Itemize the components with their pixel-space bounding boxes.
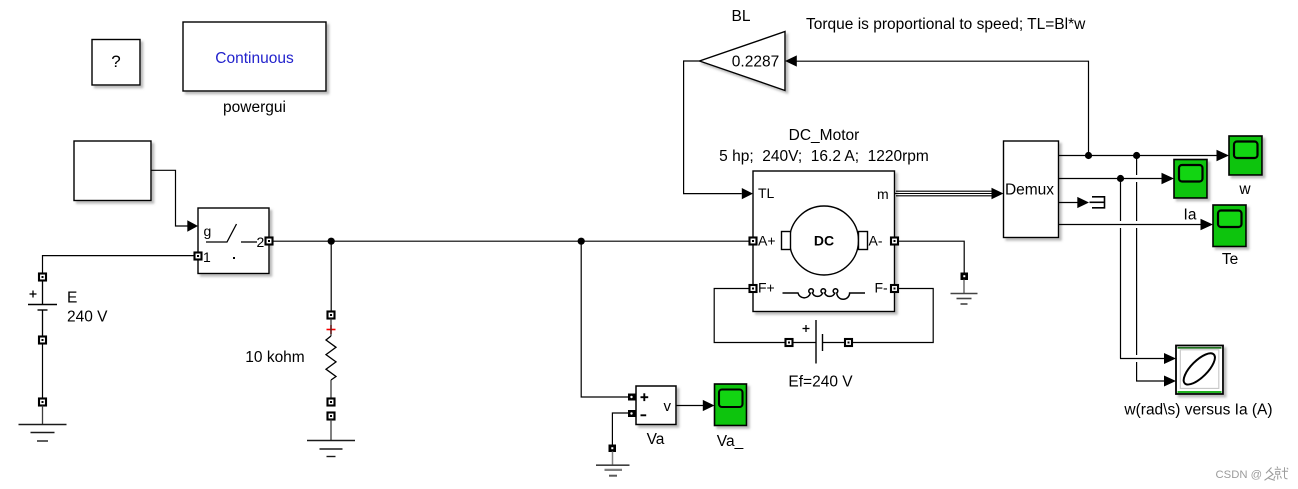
gain BL <box>700 32 786 91</box>
svg-text:TL: TL <box>758 185 775 201</box>
motor port A- <box>891 238 898 245</box>
wire gain output to TL <box>684 61 753 199</box>
svg-text:F-: F- <box>875 280 889 296</box>
svg-text:CSDN @: CSDN @ <box>1216 469 1263 481</box>
svg-text:powergui: powergui <box>223 99 286 116</box>
svg-text:Te: Te <box>1222 251 1238 268</box>
junction w to XY <box>1133 152 1140 159</box>
junction Ia to XY <box>1117 175 1124 182</box>
wire demux out3 to terminator <box>1059 197 1090 208</box>
wire E to breaker input 1 <box>43 256 195 274</box>
svg-text:?: ? <box>111 52 120 71</box>
svg-text:Ef=240 V: Ef=240 V <box>788 374 853 391</box>
battery Ef <box>786 320 853 364</box>
svg-text:A+: A+ <box>758 233 776 249</box>
wire junction to Va + input <box>581 241 632 397</box>
breaker output port <box>266 238 273 245</box>
motor port F+ <box>750 285 757 292</box>
voltage measurement Va <box>636 386 676 425</box>
resistor 10 kohm branch <box>326 312 336 406</box>
wire A- to ground <box>898 241 964 272</box>
Va - port <box>628 410 636 417</box>
scope Te <box>1213 205 1246 247</box>
wire to resistor <box>330 241 332 311</box>
svg-text:w(rad\s) versus Ia (A): w(rad\s) versus Ia (A) <box>1123 402 1272 419</box>
junction w feedback <box>1085 152 1092 159</box>
ground at A- <box>951 273 978 305</box>
svg-text:Va: Va <box>647 431 665 448</box>
svg-text:Torque is proportional to spee: Torque is proportional to speed; TL=Bl*w <box>806 16 1086 33</box>
junction at resistor branch <box>328 238 335 245</box>
motor port A+ <box>750 238 757 245</box>
svg-text:A-: A- <box>869 233 883 249</box>
step source block <box>74 141 151 201</box>
wire demux out2 to scope Ia <box>1059 173 1175 184</box>
wire feedback w to gain input <box>785 55 1089 155</box>
watermark CSDN <box>1216 467 1289 482</box>
svg-text:240 V: 240 V <box>67 309 108 326</box>
svg-text:1: 1 <box>203 249 211 265</box>
DC voltage source E <box>28 274 57 344</box>
ground below E <box>19 399 67 442</box>
wire demux out4 to scope Te <box>1059 219 1214 230</box>
svg-text:2: 2 <box>257 234 265 250</box>
demux block <box>1004 141 1059 238</box>
svg-text:10 kohm: 10 kohm <box>245 349 304 366</box>
svg-text:E: E <box>67 290 77 307</box>
svg-text:DC_Motor: DC_Motor <box>789 127 860 144</box>
svg-text:Va_: Va_ <box>717 433 744 450</box>
svg-text:BL: BL <box>732 8 751 25</box>
model info block ? <box>92 40 140 86</box>
ground below Va <box>596 445 630 476</box>
svg-text:Continuous: Continuous <box>215 50 294 67</box>
svg-text:0.2287: 0.2287 <box>732 54 779 71</box>
wire Ef to F- <box>852 289 933 343</box>
svg-text:5 hp; 240V; 16.2 A; 1220rpm: 5 hp; 240V; 16.2 A; 1220rpm <box>719 148 929 165</box>
svg-text:Ia: Ia <box>1184 207 1197 224</box>
breaker input port 1 <box>195 253 202 260</box>
wire Va to scope Va_ <box>676 400 715 411</box>
scope Ia <box>1174 160 1207 199</box>
wire w branch to XY input 2 <box>1137 156 1176 387</box>
ground below resistor <box>307 413 355 457</box>
svg-text:Demux: Demux <box>1005 182 1054 199</box>
powergui block <box>183 22 326 91</box>
svg-text:DC: DC <box>814 233 834 249</box>
wire step to breaker g <box>152 170 199 232</box>
scope w <box>1229 136 1262 175</box>
terminator <box>1090 197 1105 208</box>
wire ground to Va - input <box>612 413 632 445</box>
main bus wire breaker to motor A+ <box>273 240 750 242</box>
svg-text:v: v <box>664 398 672 415</box>
svg-text:m: m <box>877 186 889 202</box>
svg-text:g: g <box>204 223 212 239</box>
DC motor block <box>753 171 895 312</box>
bus m to Demux <box>895 188 1004 200</box>
wire E to ground <box>42 344 44 399</box>
breaker block <box>198 208 269 274</box>
label E 240 V <box>67 290 108 326</box>
scope Va_ <box>715 384 747 426</box>
wire Ia branch to XY input 1 <box>1120 179 1176 365</box>
svg-text:F+: F+ <box>758 280 775 296</box>
label DC_Motor <box>719 127 929 165</box>
junction at Va branch <box>578 238 585 245</box>
motor port F- <box>891 285 898 292</box>
wire demux out1 to scope w <box>1059 150 1230 161</box>
svg-text:w: w <box>1238 181 1251 198</box>
wire F+ to Ef <box>714 289 785 343</box>
XY graph scope <box>1176 346 1223 395</box>
Va + port <box>628 394 636 401</box>
